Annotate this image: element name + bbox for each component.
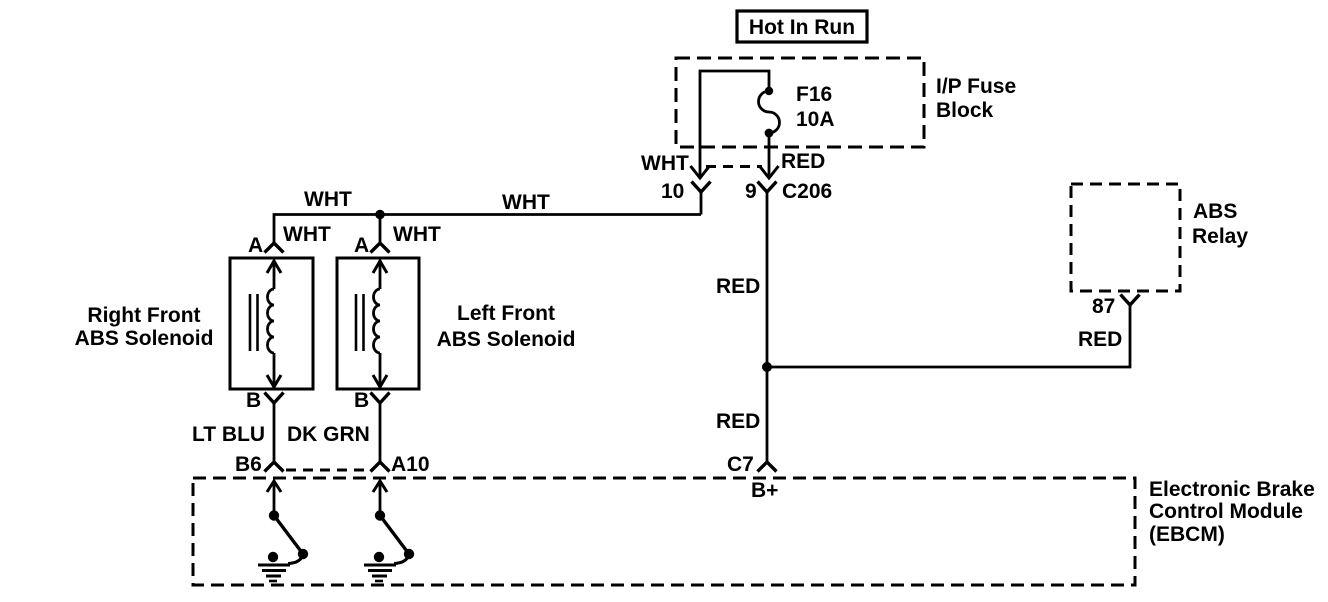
svg-text:RED: RED bbox=[781, 150, 825, 173]
switch pin arrow (B6) bbox=[267, 481, 281, 515]
svg-text:WHT: WHT bbox=[304, 188, 352, 211]
connector A10 bbox=[371, 453, 430, 476]
I/P Fuse Block label bbox=[936, 75, 1016, 122]
svg-text:(EBCM): (EBCM) bbox=[1149, 523, 1225, 546]
svg-text:WHT: WHT bbox=[502, 191, 550, 214]
Electronic Brake Control Module box bbox=[193, 478, 1135, 585]
connector A (right front) bbox=[248, 234, 284, 257]
svg-text:A: A bbox=[354, 234, 369, 257]
connector pin 9 bbox=[745, 180, 777, 203]
wire RED below fuse bbox=[768, 133, 771, 178]
connector C7 bbox=[727, 453, 777, 476]
svg-text:Right Front: Right Front bbox=[87, 304, 200, 327]
svg-text:Electronic Brake: Electronic Brake bbox=[1149, 478, 1315, 501]
svg-text:B: B bbox=[246, 389, 261, 412]
arrow pin into connector 9 bbox=[760, 166, 779, 178]
connector A (left front) bbox=[354, 234, 390, 257]
node junction on RED wire bbox=[762, 362, 772, 372]
svg-text:WHT: WHT bbox=[641, 152, 689, 175]
ABS Relay label bbox=[1192, 200, 1248, 248]
wire LT BLU bbox=[273, 403, 276, 462]
svg-text:LT BLU: LT BLU bbox=[192, 423, 265, 446]
svg-text:ABS: ABS bbox=[1193, 200, 1237, 223]
svg-text:WHT: WHT bbox=[393, 223, 441, 246]
svg-text:DK GRN: DK GRN bbox=[287, 423, 370, 446]
svg-text:ABS Solenoid: ABS Solenoid bbox=[437, 328, 576, 351]
svg-text:10A: 10A bbox=[796, 108, 835, 131]
svg-text:RED: RED bbox=[716, 275, 760, 298]
Right Front ABS Solenoid box bbox=[230, 258, 313, 389]
svg-text:B: B bbox=[354, 389, 369, 412]
svg-text:87: 87 bbox=[1092, 295, 1115, 318]
svg-text:F16: F16 bbox=[796, 83, 832, 106]
Electronic Brake Control Module (EBCM) label bbox=[1149, 478, 1315, 546]
switch pin arrow (A10) bbox=[373, 481, 387, 515]
svg-text:I/P Fuse: I/P Fuse bbox=[936, 75, 1016, 98]
svg-text:Hot In Run: Hot In Run bbox=[749, 16, 855, 39]
svg-text:RED: RED bbox=[1078, 328, 1122, 351]
svg-text:C7: C7 bbox=[727, 453, 754, 476]
arrow pin into connector 10 bbox=[691, 166, 710, 178]
Right Front solenoid coil bbox=[250, 260, 281, 387]
I/P Fuse Block box bbox=[676, 58, 924, 147]
wire RED vertical bbox=[766, 192, 769, 462]
C206 connector dashed line bbox=[706, 165, 762, 168]
svg-text:RED: RED bbox=[716, 410, 760, 433]
svg-text:ABS Solenoid: ABS Solenoid bbox=[75, 327, 214, 350]
connector B6 bbox=[235, 453, 284, 476]
wire DK GRN bbox=[379, 403, 382, 462]
svg-text:Control Module: Control Module bbox=[1149, 500, 1303, 523]
svg-text:Block: Block bbox=[936, 99, 994, 122]
fuse F16 bbox=[759, 87, 780, 138]
svg-text:A: A bbox=[248, 234, 263, 257]
ABS Relay box bbox=[1071, 184, 1180, 291]
svg-text:Left Front: Left Front bbox=[457, 302, 555, 325]
connector B (right front) bbox=[246, 389, 284, 412]
svg-text:WHT: WHT bbox=[283, 223, 331, 246]
svg-text:B6: B6 bbox=[235, 453, 262, 476]
node junction on WHT wire bbox=[375, 210, 384, 219]
svg-text:C206: C206 bbox=[782, 180, 832, 203]
switch SW1 bbox=[269, 510, 308, 563]
svg-text:Relay: Relay bbox=[1192, 225, 1248, 248]
connector pin 87 bbox=[1092, 295, 1140, 319]
ground (SW1) bbox=[258, 552, 290, 581]
Left Front solenoid coil bbox=[356, 260, 387, 387]
wire WHT horizontal to solenoids bbox=[274, 215, 701, 244]
svg-text:10: 10 bbox=[661, 180, 684, 203]
svg-text:A10: A10 bbox=[391, 453, 430, 476]
Left Front ABS Solenoid box bbox=[337, 258, 419, 389]
switch SW2 bbox=[375, 510, 414, 563]
wire RED to ABS relay bbox=[767, 305, 1130, 367]
Left Front ABS Solenoid label bbox=[437, 302, 576, 351]
connector B (left front) bbox=[354, 389, 390, 412]
svg-text:B+: B+ bbox=[751, 479, 778, 502]
ground (SW2) bbox=[364, 552, 396, 581]
connector pin 10 bbox=[661, 180, 711, 215]
svg-text:9: 9 bbox=[745, 180, 757, 203]
Right Front ABS Solenoid label bbox=[75, 304, 214, 350]
connector dashed line B6-A10 bbox=[286, 469, 371, 472]
Hot In Run box bbox=[737, 11, 867, 42]
wire WHT drop to left front solenoid bbox=[379, 215, 382, 244]
F16 10A value label bbox=[796, 83, 835, 131]
wire WHT from fuse block bbox=[700, 71, 769, 178]
